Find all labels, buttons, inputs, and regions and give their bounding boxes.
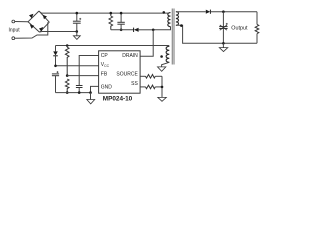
phase dot primary [163,11,166,14]
svg-text:Output: Output [231,26,248,32]
resistor divider lower [65,79,69,93]
wire bias top to left components [56,45,170,48]
node dot clamp C top [120,12,123,15]
wire VCC node to pin [56,65,99,67]
svg-text:GND: GND [101,84,113,90]
node dot input cap top rail [76,12,79,15]
wire input top to bridge left corner [15,21,28,23]
svg-text:DRAIN: DRAIN [122,53,138,59]
resistor load [256,12,258,25]
node dot VCC [54,65,57,68]
svg-text:SOURCE: SOURCE [116,71,138,77]
diode clamp (points left) [133,28,135,32]
phase dot bias [160,55,163,58]
wire secondary top to output diode [176,11,206,13]
wire ground rail [56,92,91,94]
ground primary input [76,32,78,36]
node dot gnd rail end [89,91,92,94]
capacitor CP [76,85,83,87]
node dot output cap top [222,10,225,13]
node dot divider lower gnd [66,91,69,94]
ground output [222,43,224,47]
wire clamp node to primary bottom [153,27,170,30]
transformer T1 core [171,9,173,65]
wire source/ss join vertical [161,76,163,97]
bridge rectifier BR1 diamond [28,11,49,32]
wire drain vertical to DRAIN pin [140,30,153,56]
resistor divider upper [66,46,68,48]
node dot CP cap gnd [78,91,81,94]
wire bottom rail from bridge - to input cap [40,31,77,33]
IC U1 MP024-10 box [99,51,141,93]
capacitor clamp C [120,13,122,22]
bridge diode arrow lower-right [39,27,43,31]
ground source/ss [158,97,167,101]
input terminal top [12,20,15,23]
transformer secondary winding [176,12,179,26]
capacitor input filter [76,13,78,21]
transformer primary winding [168,13,171,27]
resistor clamp R [110,13,112,16]
svg-text:MP024-10: MP024-10 [103,96,133,103]
node dot bias divider top [66,44,69,47]
resistor source [140,75,145,77]
node dot clamp R top [110,12,113,15]
node dot ss junction [161,86,164,89]
wire top rail from bridge + to transformer primary [40,12,169,13]
wire clamp bottom [111,29,134,31]
phase dot secondary [180,24,183,27]
svg-text:FB: FB [101,71,108,77]
wire secondary bottom return [176,25,257,43]
capacitor output (polarized) [222,12,224,27]
resistor SS [140,86,145,88]
wire input bottom to bridge right corner [15,22,48,38]
node dot FB [66,74,69,77]
node dot output cap bottom [222,42,225,45]
bridge diode arrow upper-left [29,14,33,18]
node dot drain junction [152,29,155,32]
ground IC [90,93,92,100]
wire FB node to pin [67,75,98,77]
wire CP pin to cap [79,56,98,86]
capacitor VCC (polarized) [52,73,59,75]
wire bias bottom to ground [162,62,170,67]
bridge diode arrow lower-left [30,24,34,28]
wire GND pin down [91,86,99,92]
input terminal bottom [12,37,15,40]
svg-text:SS: SS [131,81,138,87]
ground bias winding [158,67,166,71]
svg-text:Input: Input [9,27,21,33]
diode vcc rectifier (points down) [55,46,57,52]
svg-text:CP: CP [101,53,109,59]
diode output rectifier (points right) [206,10,210,14]
transformer bias winding [166,46,169,62]
bridge diode arrow upper-right [43,15,47,19]
node dot clamp C bottom [120,29,123,32]
node dot input cap bottom rail [76,30,79,33]
